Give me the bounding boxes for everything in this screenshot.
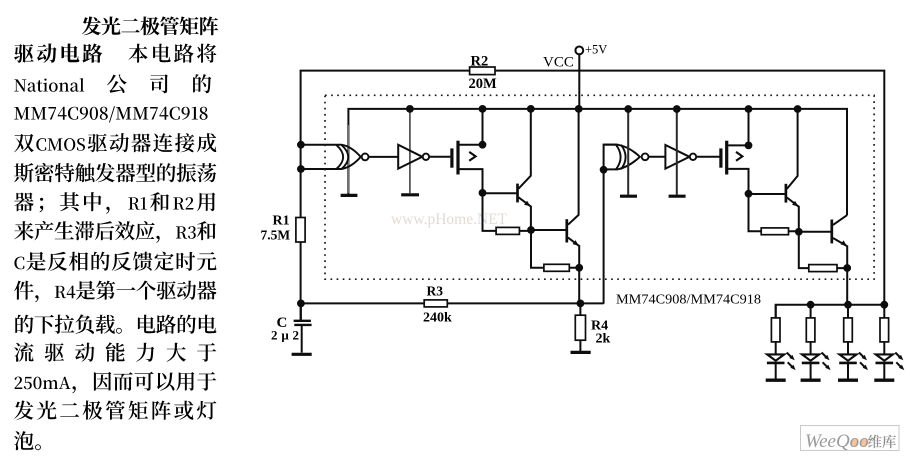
svg-text:+5V: +5V xyxy=(585,43,607,57)
ground under inverter U2b xyxy=(669,195,686,198)
wire stub through inverter U2b (rail to ground) xyxy=(676,109,678,195)
LED D3 xyxy=(839,354,856,360)
node rail junction at VCC xyxy=(575,105,583,113)
resistor Q3 base-emitter with leads xyxy=(749,194,799,232)
transistor Q4 emitter arrow xyxy=(841,240,847,246)
ground under inverter U1b xyxy=(401,193,419,196)
LED D2 emission arrows xyxy=(822,353,827,358)
node rail junction above U2a xyxy=(624,105,632,113)
LED branch D3: series resistor xyxy=(847,305,849,355)
wire LED D4 cathode lead xyxy=(883,363,885,379)
node Q1 base xyxy=(479,189,487,197)
transistor Q2 base bar xyxy=(565,219,568,242)
wire M1 drain to rail xyxy=(460,109,483,145)
left caption text column xyxy=(14,16,218,450)
node M1 drain xyxy=(479,141,487,149)
MOSFET M1 channel bar xyxy=(456,141,459,175)
wire M1 source down to Q1 base node xyxy=(460,169,483,193)
resistor Q2 emitter with leads xyxy=(531,230,579,268)
watermark WeeQoo box xyxy=(801,426,900,451)
resistor Q4 emitter with leads xyxy=(799,232,847,268)
node gate U1a input bottom xyxy=(297,165,305,173)
inverter U1b triangle xyxy=(398,145,422,169)
svg-text:VCC: VCC xyxy=(543,55,574,71)
gate U2a body (XNOR) xyxy=(604,145,640,170)
ground under R4 xyxy=(571,351,591,354)
node Q3 base xyxy=(745,190,753,198)
wire timing node R3 bus xyxy=(301,302,604,304)
node rail junction above U1b xyxy=(406,105,414,113)
wire VCC terminal to rail xyxy=(578,54,580,109)
node rail junction above Q3 xyxy=(794,105,802,113)
watermark weiku characters xyxy=(868,435,882,449)
wire M2 drain to rail xyxy=(728,109,748,145)
transistor Q4 emitter xyxy=(833,238,847,268)
ground under gate U2a xyxy=(620,195,637,198)
gate U2a back arc xyxy=(621,145,626,170)
internal VCC rail with left ground leg and right leg to Q4 collector xyxy=(348,109,847,215)
svg-text:R3: R3 xyxy=(427,284,444,299)
gate U2a output bubble xyxy=(642,153,649,160)
svg-text:WeeQoo: WeeQoo xyxy=(805,431,869,452)
wire LED D2 cathode lead xyxy=(810,363,812,379)
transistor Q2 emitter xyxy=(568,238,579,268)
ground under capacitor C xyxy=(292,353,312,356)
wire Q2 emitter down to timing node xyxy=(578,268,580,304)
transistor Q4 collector xyxy=(833,215,847,225)
wire LED D3 cathode lead xyxy=(847,363,849,379)
wire LED D1 cathode lead xyxy=(775,363,777,379)
inverter U1b output bubble xyxy=(423,154,429,160)
wire stub through inverter U1b (rail to ground) xyxy=(409,109,411,193)
gate U1a back arc xyxy=(342,145,349,169)
ground under LED D1 xyxy=(766,379,786,382)
ground under LED D4 xyxy=(874,379,894,382)
transistor Q4 base bar xyxy=(830,220,833,244)
wire U1a output to inverter U1b xyxy=(369,156,398,158)
node left timing junction xyxy=(297,300,305,308)
LED D3 emission arrows xyxy=(859,353,864,358)
inverter U2b output bubble xyxy=(690,154,696,160)
svg-text:R1: R1 xyxy=(273,214,290,229)
wire stub through gate U1a xyxy=(348,125,350,193)
LED D4 emission arrows xyxy=(895,353,900,358)
capacitor C top lead xyxy=(300,303,302,320)
wire U2a output to inverter U2b xyxy=(649,156,666,158)
LED D2 xyxy=(802,354,819,360)
node Q3 emitter / Q4 base xyxy=(795,228,803,236)
transistor Q2 collector xyxy=(568,109,579,225)
node gate U1a input top xyxy=(297,141,305,149)
capacitor C bottom lead xyxy=(301,326,303,353)
inverter U2b triangle xyxy=(665,145,689,169)
svg-text:2μ2: 2μ2 xyxy=(271,328,299,343)
node rail junction above M1 xyxy=(479,105,487,113)
gate U1a output bubble xyxy=(362,154,369,161)
gate U2a input line from timing bus xyxy=(604,145,617,304)
gate U1a body (XNOR, inputs tied) xyxy=(301,145,361,169)
node Q1 emitter / Q2 base xyxy=(527,226,535,234)
resistor R4 with leads xyxy=(579,303,581,351)
dashed enclosure MM74C908/MM74C918 xyxy=(325,95,874,279)
svg-text:7.5M: 7.5M xyxy=(261,228,291,243)
LED D1 xyxy=(767,354,784,360)
svg-text:R2: R2 xyxy=(471,54,489,70)
svg-text:20M: 20M xyxy=(469,76,498,92)
LED branch D1: series resistor xyxy=(775,305,777,355)
node gate U2a lower input xyxy=(600,166,608,174)
wire LED anode bus xyxy=(776,305,885,318)
transistor Q1 emitter xyxy=(519,197,531,230)
MOSFET M2 arrow xyxy=(736,152,742,161)
LED branch D4: series resistor xyxy=(883,305,885,355)
node rail junction above M2 xyxy=(745,105,753,113)
MOSFET M2 gate bar xyxy=(719,148,722,167)
svg-text:MM74C908/MM74C918: MM74C908/MM74C918 xyxy=(616,292,761,307)
gate U2a second input arc xyxy=(616,145,621,170)
svg-text:2k: 2k xyxy=(596,332,611,347)
resistor Q1 base-emitter with leads xyxy=(483,193,532,231)
capacitor C plates xyxy=(294,321,312,325)
wire Q1 base node to Q1 xyxy=(483,192,517,194)
LED D4 xyxy=(876,354,893,360)
ground under LED D3 xyxy=(838,379,858,382)
node M2 drain xyxy=(745,142,753,150)
node rail junction above Q1 xyxy=(527,105,535,113)
node LED bus junctions xyxy=(807,301,815,309)
wire Q3 base node to Q3 xyxy=(749,193,785,195)
resistor R2 xyxy=(470,67,495,75)
transistor Q3 emitter arrow xyxy=(792,201,798,207)
transistor Q3 emitter xyxy=(787,198,799,232)
node rail junction above U2b xyxy=(673,105,681,113)
node R4 top junction xyxy=(577,300,585,308)
resistor R1 (body on left wire) xyxy=(296,218,305,243)
wire to Q4 base xyxy=(799,231,831,233)
transistor Q1 collector xyxy=(519,109,531,189)
LED branch D2: series resistor xyxy=(810,305,812,355)
transistor Q3 base bar xyxy=(785,184,788,203)
wire U1b output to M1 gate xyxy=(429,156,450,158)
node Q2 emitter resistor junction xyxy=(575,264,583,272)
MOSFET M1 arrow xyxy=(469,152,475,161)
wire outer loop: left side, top bus, right side xyxy=(301,71,885,320)
MOSFET M1 gate bar xyxy=(450,148,453,167)
resistor R3 xyxy=(424,300,447,307)
transistor Q3 collector xyxy=(787,109,798,189)
node Q4 emitter resistor junction xyxy=(843,264,851,272)
LED D1 emission arrows xyxy=(787,353,792,358)
ground under LED D2 xyxy=(801,379,821,382)
wire Q4 emitter to LED bus xyxy=(846,268,848,305)
transistor Q2 emitter arrow xyxy=(573,240,579,246)
svg-text:240k: 240k xyxy=(423,311,452,326)
wire M2 source down to Q3 base node xyxy=(728,169,748,194)
ground under gate U1a xyxy=(341,194,358,197)
transistor Q1 base bar xyxy=(516,184,519,203)
wire stub through gate U2a (rail to ground) xyxy=(627,109,629,195)
transistor Q1 emitter arrow xyxy=(524,201,530,207)
wire to Q2 base xyxy=(531,229,566,231)
MOSFET M2 channel bar xyxy=(725,141,728,175)
gate U1a second input arc xyxy=(336,145,343,169)
supply terminal +5V xyxy=(575,47,583,55)
wire U2b output to M2 gate xyxy=(696,156,719,158)
svg-text:www.pHome.NET: www.pHome.NET xyxy=(391,211,508,228)
